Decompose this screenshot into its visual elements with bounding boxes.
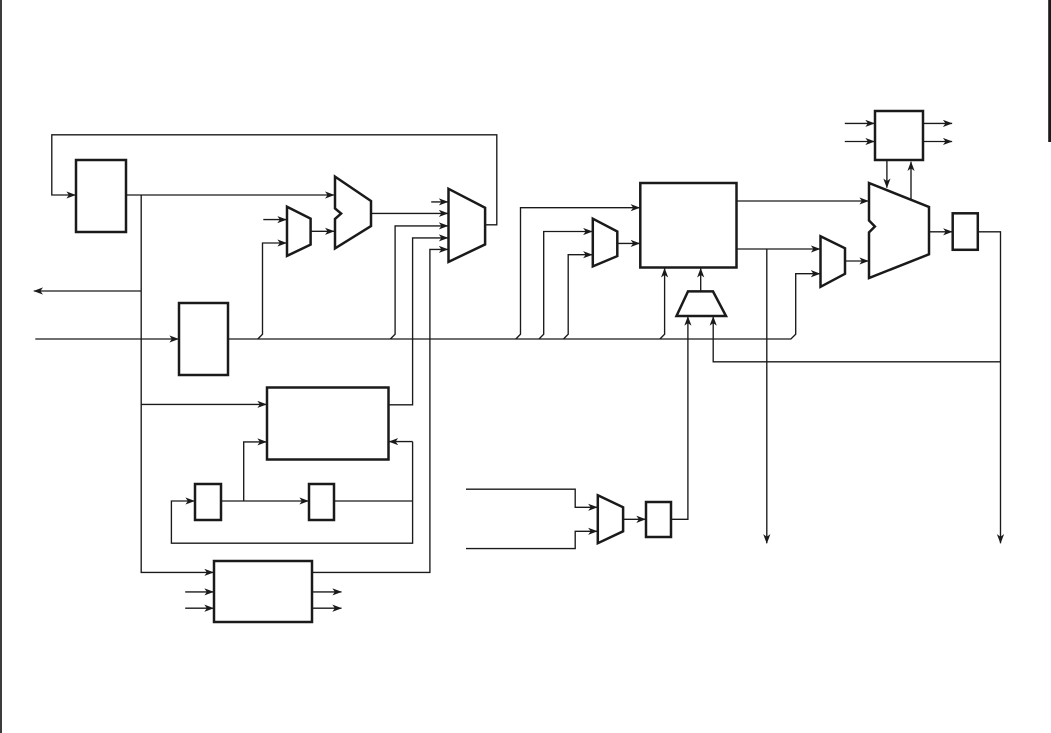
page right edge bar	[1048, 0, 1051, 142]
block U4 (I/O ports box)	[214, 561, 312, 622]
wire branch down with arrow (data out)	[766, 249, 768, 543]
wire stub into mux M2 input 1	[431, 201, 448, 203]
register B (small box right)	[309, 484, 334, 520]
register W (result register box7)	[953, 213, 978, 250]
mux M4 (ALU operand mux)	[821, 236, 846, 286]
wire ALU up to U6	[910, 162, 912, 200]
block U3 (decode/control box)	[267, 388, 389, 460]
wire U5 output up to mux M6 input 1	[671, 317, 688, 520]
wire regfile output 2 to mux M4 input 1	[737, 248, 821, 250]
mux M1	[287, 207, 311, 256]
wire U4 output 1	[312, 591, 342, 593]
wire ALU output to register W	[929, 231, 952, 233]
wire PC branch down to U4	[141, 195, 213, 572]
wire bus segment from IR to mux M4 input 2	[228, 274, 820, 339]
wire bus tap to mux M1 input 2	[258, 243, 287, 339]
wire register A to register B	[221, 500, 309, 502]
wire bus tap to regfile input 1	[516, 208, 640, 339]
wire mux M3 output to regfile input 2	[617, 242, 640, 244]
wire U6 down to ALU	[886, 160, 888, 188]
wire tap from A-B wire up to U3 input 2	[244, 442, 267, 501]
wire mux M4 output to ALU input 2	[845, 260, 869, 262]
wire stub U6 input 1	[845, 122, 875, 124]
wire PC feedback loop from mux M2 output to PC input	[52, 135, 497, 225]
register PC (box1)	[76, 160, 126, 232]
wire register W output down with arrow	[978, 232, 1001, 544]
wire register B output to loop vertical	[334, 500, 413, 502]
wire mux M5 output to U5	[623, 518, 645, 520]
wire PC branch to U3 input 1	[141, 403, 266, 405]
wire stub into mux M1 input 1	[263, 219, 286, 221]
mux M3 (regfile write mux)	[593, 219, 618, 267]
wire U6 output 1	[923, 122, 952, 124]
alu ALU	[869, 183, 929, 278]
wire mux M6 output to regfile bottom	[700, 268, 702, 291]
wire loop down and around to register A input	[171, 442, 412, 544]
wire U4 output up to mux M2 input 5	[312, 249, 448, 572]
wire bus segment into IR	[35, 338, 178, 340]
wire loop arrow into U3 right input	[389, 441, 413, 443]
wire stub U4 input 2	[185, 591, 213, 593]
block U6 (multiplier box)	[875, 111, 923, 160]
register IR (box2)	[179, 303, 228, 375]
wire bus tap to mux M3 input 2	[564, 255, 593, 339]
wire regfile output 1 to ALU input 1	[737, 200, 869, 202]
page left edge line	[0, 0, 2, 733]
wire literal line 2 into mux M5 input 2	[466, 531, 597, 548]
mux M5 (literal mux)	[598, 495, 623, 543]
register A (small box left)	[195, 484, 221, 520]
wire bus tap up to regfile bottom input	[660, 268, 665, 339]
wire adder output to mux M2 input 2	[371, 212, 448, 214]
wire bus tap to mux M3 input 1	[539, 232, 592, 340]
adder ADD	[335, 177, 371, 249]
wire bus tap to mux M2 input 3	[390, 226, 448, 339]
mux M6 (upward trapezoid mux)	[677, 291, 727, 316]
wire U6 output 2	[923, 141, 952, 143]
register U5 (small box after mux M5)	[646, 502, 671, 537]
wire literal line 1 into mux M5 input 1	[466, 489, 597, 507]
register file RF	[640, 183, 736, 268]
wire mux M1 output to adder input 2	[311, 230, 335, 232]
wire U4 output 2	[312, 607, 342, 609]
wire left output arrow	[34, 290, 141, 292]
wire PC output to adder	[126, 194, 334, 196]
wire writeback from W line to mux M6 input 2	[713, 317, 1000, 362]
wire stub U6 input 2	[845, 141, 875, 143]
wire stub U4 input 3	[185, 607, 213, 609]
mux M2 (PC source mux)	[449, 189, 486, 262]
wire U3 output up to mux M2 input 4	[389, 238, 449, 405]
